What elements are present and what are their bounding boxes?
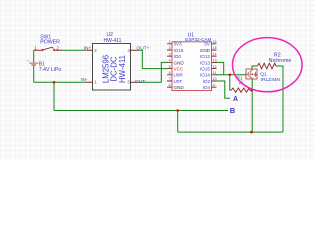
svg-text:5V: 5V (204, 42, 211, 47)
svg-text:1: 1 (34, 45, 37, 50)
junction battery rail (53, 81, 56, 84)
junction bottom rail (250, 131, 253, 134)
svg-text:6: 6 (169, 71, 171, 75)
svg-text:16: 16 (213, 40, 217, 44)
svg-text:OUT-: OUT- (135, 79, 147, 85)
svg-text:A: A (233, 96, 238, 103)
switch SW1 (34, 35, 62, 52)
svg-text:IO13: IO13 (200, 60, 210, 65)
wire ground drop x54 (53, 82, 55, 110)
svg-text:GND: GND (200, 48, 211, 53)
svg-text:8: 8 (169, 83, 171, 87)
svg-text:OUT+: OUT+ (137, 45, 150, 51)
wire U2 OUT+ to U1 VCC (137, 50, 167, 68)
svg-text:IO2: IO2 (203, 79, 211, 84)
svg-text:4: 4 (169, 59, 171, 63)
svg-text:5: 5 (169, 65, 171, 69)
svg-text:Q1: Q1 (260, 72, 267, 78)
svg-text:GND: GND (174, 60, 185, 65)
wire gate line (216, 74, 246, 76)
svg-text:14: 14 (213, 52, 217, 56)
svg-text:IO4: IO4 (203, 85, 211, 90)
svg-text:1: 1 (169, 40, 171, 44)
wire R1 branch (230, 75, 252, 90)
svg-text:7: 7 (169, 77, 171, 81)
wire switch to U2 IN+ (62, 49, 87, 51)
wire ground rail to U2 IN- (34, 81, 87, 83)
svg-text:IO14: IO14 (200, 73, 210, 78)
svg-text:IO12: IO12 (200, 54, 210, 59)
wire battery minus vertical (33, 66, 35, 83)
svg-text:11: 11 (213, 71, 217, 75)
svg-text:+: + (27, 59, 30, 64)
svg-text:VCC: VCC (174, 67, 184, 72)
wire bottom rail (178, 131, 283, 133)
junction gate line (229, 74, 232, 77)
svg-text:IN+: IN+ (84, 45, 92, 51)
wire Q1 source vertical (251, 79, 253, 132)
svg-text:HW-411: HW-411 (104, 38, 122, 44)
svg-text:2: 2 (56, 45, 59, 50)
svg-text:2: 2 (169, 46, 171, 50)
svg-text:U0R: U0R (174, 73, 184, 78)
node A (233, 96, 238, 103)
dc-dc module U2 (81, 32, 150, 90)
svg-text:15: 15 (213, 46, 217, 50)
svg-text:9: 9 (213, 83, 215, 87)
svg-text:U0T: U0T (174, 79, 183, 84)
svg-text:13: 13 (213, 59, 217, 63)
svg-text:IRLZ44N: IRLZ44N (261, 77, 281, 83)
wire IO13 branch (216, 62, 224, 74)
svg-text:IO16: IO16 (174, 48, 184, 53)
wire U2 OUT- to U1 GND (137, 62, 167, 82)
svg-text:HW-411: HW-411 (118, 55, 127, 83)
svg-text:Nichrome: Nichrome (269, 58, 292, 64)
resistor R2 (258, 52, 292, 68)
node B (230, 106, 236, 115)
wire net B horizontal (54, 110, 228, 112)
svg-text:GND: GND (174, 85, 185, 90)
svg-text:IO0: IO0 (174, 54, 182, 59)
battery B1 (27, 59, 62, 74)
wire Q1 drain to R2 (252, 66, 283, 132)
junction net B (176, 109, 179, 112)
svg-text:POWER: POWER (40, 39, 60, 45)
svg-text:10: 10 (213, 77, 217, 81)
svg-text:IO15: IO15 (200, 67, 210, 72)
svg-text:IN-: IN- (81, 77, 88, 83)
svg-text:3: 3 (169, 52, 171, 56)
resistor R1 (231, 75, 250, 92)
svg-text:ESP32-CAM: ESP32-CAM (185, 37, 211, 42)
svg-text:3V3: 3V3 (174, 42, 183, 47)
junction source R1 (251, 89, 254, 92)
wire drop x177.7 (177, 111, 179, 133)
wire IO2 to net A (216, 81, 230, 98)
wire battery plus vertical (33, 50, 35, 62)
highlight ellipse (232, 38, 302, 92)
svg-text:12: 12 (213, 65, 217, 69)
esp32-cam module U1 (167, 32, 217, 90)
transistor Q1 (246, 69, 281, 83)
svg-text:B: B (230, 106, 236, 115)
svg-text:7.4V LiPo: 7.4V LiPo (39, 67, 62, 73)
